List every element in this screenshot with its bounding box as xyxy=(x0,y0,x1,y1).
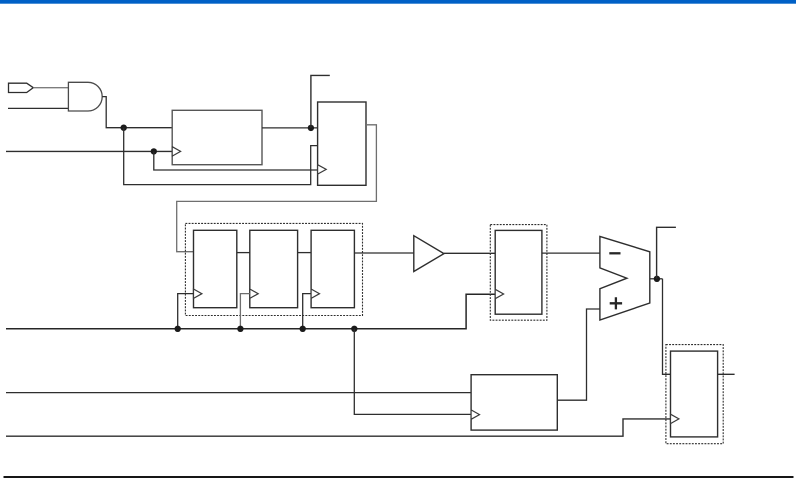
wire node H stub up xyxy=(657,227,676,278)
flip-flop U1 xyxy=(172,110,262,164)
footer rule xyxy=(4,476,794,478)
wire node C stub up xyxy=(311,75,330,128)
minus label xyxy=(609,252,620,254)
flip-flop U5 xyxy=(311,230,354,307)
clock pin U4 xyxy=(250,289,258,298)
adder-subtractor X1 xyxy=(600,236,650,320)
input tag IN1 xyxy=(9,83,34,92)
AND gate G1 xyxy=(68,82,102,111)
wire node A down to FF2 data xyxy=(124,128,318,185)
flip-flop U7 xyxy=(671,351,718,437)
wire AND output to node A xyxy=(102,97,172,128)
wire U1 output xyxy=(262,127,318,129)
wire riser to U4 clock xyxy=(240,294,249,329)
wire register data input xyxy=(6,392,471,394)
clock pin U3 xyxy=(194,289,202,298)
dashed group box U6 xyxy=(490,225,547,321)
flip-flop U4 xyxy=(250,230,298,307)
wire AND input b xyxy=(8,107,68,109)
flip-flop U6 xyxy=(495,230,542,314)
junction node G xyxy=(351,326,357,332)
dashed group box U7 xyxy=(666,345,723,444)
wire tag to AND input a xyxy=(33,87,68,89)
junction node C xyxy=(308,125,314,131)
buffer G2 xyxy=(414,236,444,272)
plus label xyxy=(610,297,622,309)
wire clock bus xyxy=(6,294,495,329)
junction node E xyxy=(237,326,243,332)
wire clk net left xyxy=(6,150,172,152)
junction node D xyxy=(175,326,181,332)
flip-flop U2 xyxy=(318,102,366,185)
register REG1 xyxy=(471,375,557,430)
wire U6 to subtractor xyxy=(542,252,600,254)
wire bottom bus to U7 clock xyxy=(6,419,671,436)
flip-flop U3 xyxy=(194,230,237,307)
wire U5 to buffer xyxy=(354,252,413,254)
clock pin U6 xyxy=(495,289,503,298)
wire node H down to U7 data xyxy=(663,279,671,375)
wire U2 output feedback to shift register xyxy=(177,125,377,252)
wire node B to FF2 clock xyxy=(154,151,318,170)
wire riser to U3 clock xyxy=(178,294,194,329)
junction node H xyxy=(654,276,660,282)
wire node G to register clock xyxy=(354,329,471,415)
wire subtractor output xyxy=(650,278,663,280)
wire U7 output stub xyxy=(718,373,735,375)
clock pin U7 xyxy=(671,414,679,423)
clock pin U5 xyxy=(311,289,319,298)
clock pin REG1 xyxy=(471,410,479,419)
clock pin U2 xyxy=(318,165,327,174)
junction node F xyxy=(300,326,306,332)
header bar xyxy=(0,0,796,4)
wire U3 to U4 xyxy=(237,252,250,254)
wire U4 to U5 xyxy=(298,252,312,254)
wire register output to adder plus input xyxy=(557,309,600,400)
junction node A xyxy=(121,125,127,131)
clock pin U1 xyxy=(172,147,180,156)
wire riser to U5 clock xyxy=(303,294,311,329)
dashed group box shift register xyxy=(185,223,362,315)
wire buffer to U6 xyxy=(444,252,495,254)
junction node B xyxy=(151,148,157,154)
